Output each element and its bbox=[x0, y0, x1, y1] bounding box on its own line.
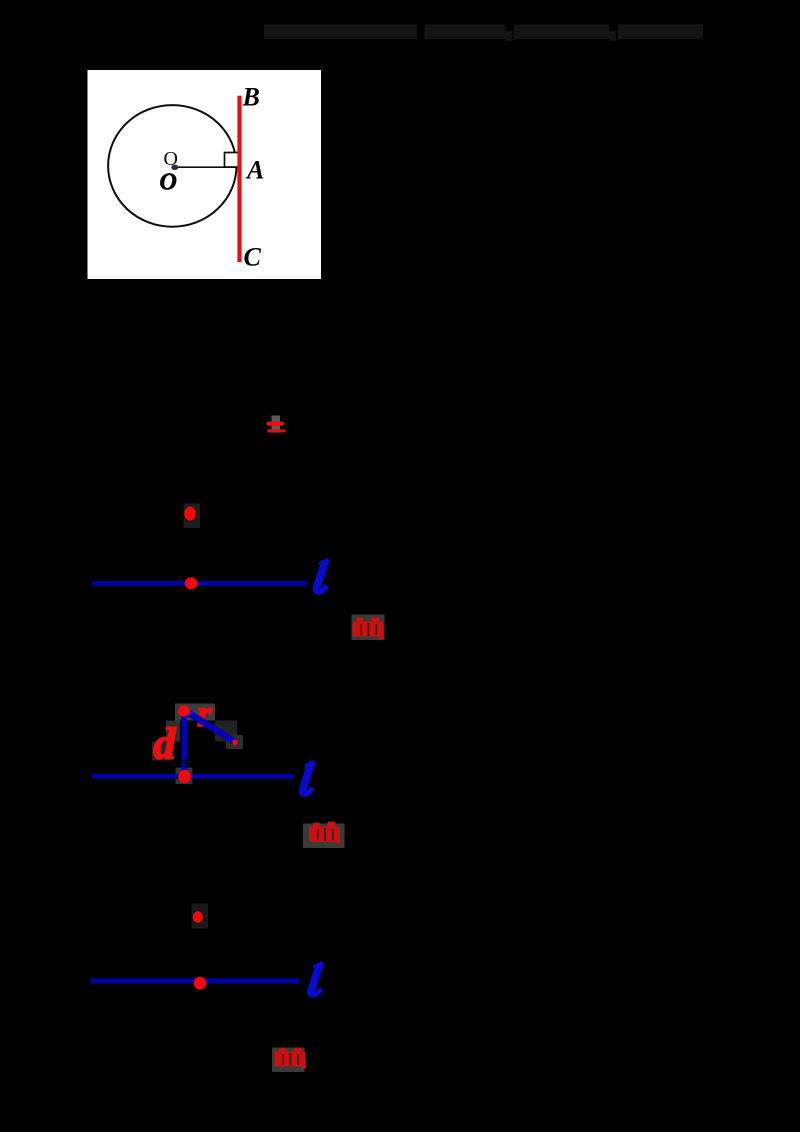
svg-text:B: B bbox=[242, 82, 260, 111]
circle O bbox=[108, 105, 236, 227]
point P fig1 bbox=[184, 507, 195, 521]
point P backdrop fig1 bbox=[184, 504, 201, 529]
label l fig2 bbox=[300, 762, 313, 795]
title text run 1 bbox=[264, 25, 417, 40]
fig2 arrowhead bbox=[182, 759, 192, 768]
title comma 1 bbox=[506, 31, 513, 41]
answer label 1 red text bbox=[353, 618, 385, 640]
svg-text:d: d bbox=[154, 720, 177, 769]
red equals mark bottom bar bbox=[268, 429, 286, 432]
fig2 center dot bbox=[178, 705, 190, 716]
title comma 2 bbox=[609, 31, 616, 41]
fig2 radius segment bbox=[187, 712, 235, 742]
fig2 gray patch top bbox=[175, 704, 215, 721]
red equals mark backdrop bbox=[272, 416, 281, 433]
figure image white box bbox=[88, 70, 322, 279]
right angle mark at A bbox=[225, 153, 239, 168]
red equals mark top bar bbox=[267, 422, 285, 426]
title text run 2 bbox=[425, 25, 506, 40]
title text run 3 bbox=[514, 25, 609, 40]
answer label 3 backdrop bbox=[272, 1048, 305, 1073]
fig3 point P backdrop bbox=[192, 904, 209, 929]
label l fig1 bbox=[314, 560, 327, 593]
fig3 point A dot bbox=[194, 977, 207, 990]
fig2 vertical segment d bbox=[181, 712, 187, 770]
fig2 gray patch right bbox=[215, 721, 237, 742]
label l fig3 bbox=[309, 963, 322, 996]
svg-text:C: C bbox=[244, 243, 262, 272]
point A on line fig1 bbox=[185, 577, 198, 589]
line l fig1 bbox=[91, 581, 306, 586]
fig3 point P bbox=[193, 911, 203, 923]
tangent line BC red bbox=[237, 96, 241, 263]
fig2 gray patch bottom bbox=[176, 768, 193, 785]
fig2 gray patch end bbox=[226, 735, 243, 749]
svg-text:O: O bbox=[160, 170, 177, 196]
center dot bbox=[171, 165, 178, 170]
answer label 1 backdrop bbox=[352, 615, 385, 641]
line l fig2 bbox=[92, 774, 294, 779]
fig2 gray patch d bbox=[152, 742, 172, 761]
answer label 2 backdrop bbox=[303, 824, 345, 849]
fig2 gray patch left bbox=[166, 721, 180, 742]
line l fig3 bbox=[91, 978, 300, 983]
fig2 radius end dot bbox=[232, 740, 237, 745]
answer label 2 red text bbox=[309, 822, 341, 844]
answer label 3 red text bbox=[275, 1048, 307, 1069]
radius OA bbox=[176, 166, 239, 168]
title text run 4 bbox=[618, 25, 703, 40]
fig2 point A dot bbox=[178, 770, 191, 784]
svg-text:A: A bbox=[245, 156, 264, 185]
